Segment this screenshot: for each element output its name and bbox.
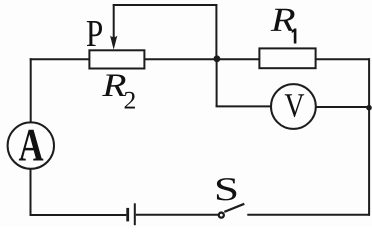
wire: voltmeter row left segment [216, 105, 271, 107]
node: junction dot on right wire [366, 105, 372, 111]
wire: voltmeter to right-side junction [316, 106, 369, 108]
label R1 [271, 9, 295, 31]
switch S: lever arm [224, 204, 244, 212]
wire: ammeter bottom to bottom-left corner [30, 168, 32, 216]
label R2 [102, 74, 126, 96]
voltmeter V: circle [271, 84, 316, 129]
wire: switch to bottom-right corner [247, 214, 370, 216]
wire: battery to switch pivot [136, 214, 218, 216]
wire: top-right vertical down to junction [215, 4, 217, 59]
ammeter A: circle [8, 122, 54, 168]
resistor R2 (rheostat body) [89, 50, 144, 68]
wire: left horizontal from top-left corner to R2 left [30, 58, 90, 60]
resistor R1 [259, 48, 315, 68]
wire: wiper top horizontal run [113, 4, 218, 6]
battery: short plate (negative) [126, 208, 129, 222]
label S [217, 178, 236, 200]
node: junction dot on main row [214, 55, 221, 62]
label V [285, 94, 305, 117]
label P [87, 21, 102, 46]
switch S: pivot circle [219, 213, 224, 218]
label A [19, 130, 43, 161]
wire: left vertical down to ammeter top [30, 58, 32, 123]
wire: junction down to voltmeter row [216, 59, 218, 107]
wire: right vertical side [368, 58, 370, 216]
wire: top-right corner to R1 right [315, 58, 370, 60]
wire: bottom run from left corner to battery [30, 214, 127, 216]
rheostat wiper arrow [110, 5, 118, 50]
wire: R1 left through junction to R2 right [144, 58, 259, 60]
battery: long plate (positive) [134, 203, 136, 225]
